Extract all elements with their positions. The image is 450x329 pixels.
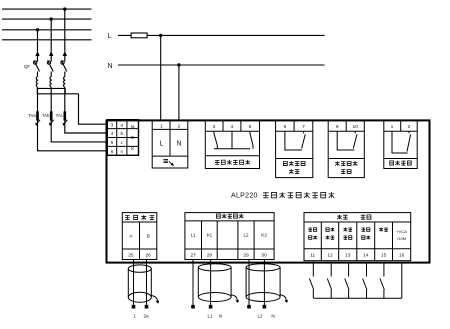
svg-text:K2: K2 — [261, 233, 267, 238]
svg-text:L2: L2 — [257, 314, 263, 319]
svg-text:ALP220: ALP220 — [231, 193, 258, 200]
svg-text:L2: L2 — [243, 233, 249, 238]
svg-text:2: 2 — [178, 123, 181, 129]
svg-text:11: 11 — [310, 253, 315, 259]
svg-text:6: 6 — [111, 149, 114, 154]
svg-text:Ia: Ia — [131, 124, 135, 129]
svg-text:26: 26 — [146, 253, 152, 259]
svg-text:4: 4 — [231, 124, 234, 130]
svg-text:30: 30 — [261, 253, 267, 259]
svg-text:L: L — [108, 33, 112, 40]
svg-text:N: N — [219, 314, 222, 319]
svg-text:a: a — [121, 122, 124, 127]
svg-text:2: 2 — [408, 124, 411, 130]
svg-text:1: 1 — [133, 314, 136, 319]
svg-text:4: 4 — [111, 131, 114, 136]
svg-text:25: 25 — [128, 253, 134, 259]
svg-text:1: 1 — [160, 123, 163, 129]
svg-text:10: 10 — [353, 124, 359, 130]
svg-text:N: N — [176, 141, 181, 148]
svg-text:29: 29 — [243, 253, 249, 259]
svg-text:TAc: TAc — [56, 113, 64, 118]
svg-text:B: B — [147, 234, 150, 240]
svg-text:/10M: /10M — [397, 236, 406, 241]
svg-text:N: N — [271, 314, 274, 319]
svg-text:6: 6 — [284, 124, 287, 130]
svg-text:12: 12 — [327, 253, 333, 259]
svg-text:TAb: TAb — [42, 113, 50, 118]
svg-text:n: n — [121, 149, 124, 154]
svg-text:QF: QF — [24, 64, 30, 69]
svg-text:b: b — [121, 131, 124, 136]
svg-text:27: 27 — [191, 253, 197, 259]
svg-text:1: 1 — [391, 124, 394, 130]
svg-text:A: A — [129, 234, 133, 240]
svg-text:K1: K1 — [207, 233, 213, 238]
svg-text:14: 14 — [363, 253, 369, 259]
svg-text:L1: L1 — [191, 233, 197, 238]
svg-text:Ib: Ib — [131, 135, 135, 140]
svg-text:28: 28 — [207, 253, 213, 259]
svg-text:9: 9 — [336, 124, 339, 130]
svg-text:L1: L1 — [207, 314, 213, 319]
svg-text:c: c — [121, 140, 124, 145]
svg-text:2a: 2a — [143, 314, 149, 319]
svg-text:5: 5 — [249, 124, 252, 130]
svg-text:TAa: TAa — [28, 113, 36, 118]
svg-text:+VCA: +VCA — [396, 229, 407, 234]
svg-text:16: 16 — [399, 253, 405, 259]
svg-text:15: 15 — [381, 253, 387, 259]
svg-text:3: 3 — [111, 122, 114, 127]
svg-text:L: L — [160, 141, 164, 148]
svg-text:3: 3 — [213, 124, 216, 130]
svg-text:13: 13 — [345, 253, 351, 259]
svg-text:7: 7 — [302, 124, 305, 130]
svg-text:N: N — [108, 63, 113, 70]
svg-text:5: 5 — [111, 140, 114, 145]
